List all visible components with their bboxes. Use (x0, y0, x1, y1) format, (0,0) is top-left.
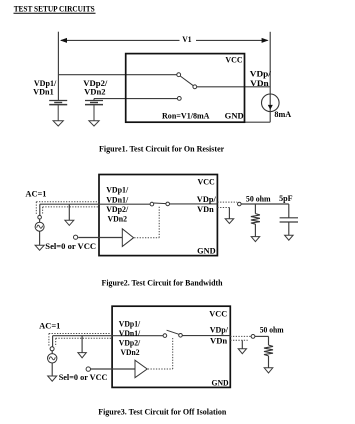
svg-text:Figure3. Test Circuit for Off: Figure3. Test Circuit for Off Isolation (98, 407, 226, 416)
svg-text:VDp2/: VDp2/ (119, 339, 141, 348)
svg-text:Sel=0 or VCC: Sel=0 or VCC (45, 242, 96, 251)
svg-text:GND: GND (197, 247, 216, 256)
svg-text:Ron=V1/8mA: Ron=V1/8mA (162, 112, 210, 121)
svg-text:VCC: VCC (209, 309, 227, 318)
svg-text:VDp1/: VDp1/ (106, 186, 129, 195)
svg-text:AC=1: AC=1 (39, 321, 60, 330)
svg-text:VDp/: VDp/ (250, 69, 272, 78)
svg-text:GND: GND (225, 111, 244, 120)
svg-text:5pF: 5pF (279, 194, 293, 203)
svg-text:VDp2/: VDp2/ (106, 205, 129, 214)
svg-text:V1: V1 (182, 35, 191, 44)
svg-text:VDn2: VDn2 (108, 214, 128, 223)
svg-text:VCC: VCC (225, 55, 242, 64)
svg-text:50 ohm: 50 ohm (260, 326, 284, 335)
svg-text:VDp/: VDp/ (210, 326, 229, 335)
svg-text:VDn: VDn (197, 205, 214, 214)
svg-text:8mA: 8mA (274, 110, 291, 119)
svg-text:Sel=0 or VCC: Sel=0 or VCC (59, 373, 108, 382)
svg-text:VDn1: VDn1 (33, 88, 54, 97)
svg-text:Figure1. Test Circuit for On R: Figure1. Test Circuit for On Resister (99, 145, 225, 154)
svg-text:VDn1/: VDn1/ (106, 195, 129, 204)
svg-text:VDn2: VDn2 (121, 348, 140, 357)
svg-text:VDn2: VDn2 (84, 88, 105, 97)
svg-text:Figure2. Test Circuit for Band: Figure2. Test Circuit for Bandwidth (102, 278, 223, 287)
svg-text:VDn1/: VDn1/ (119, 329, 141, 338)
svg-text:GND: GND (212, 378, 229, 387)
svg-text:TEST SETUP CIRCUITS: TEST SETUP CIRCUITS (14, 4, 95, 13)
svg-text:VDp1/: VDp1/ (119, 319, 141, 328)
svg-text:VDn: VDn (250, 79, 269, 88)
svg-text:AC=1: AC=1 (25, 190, 46, 199)
svg-text:VDn: VDn (210, 336, 228, 345)
svg-text:VCC: VCC (198, 178, 215, 187)
svg-text:VDp/: VDp/ (197, 195, 217, 204)
svg-text:50 ohm: 50 ohm (246, 195, 271, 204)
